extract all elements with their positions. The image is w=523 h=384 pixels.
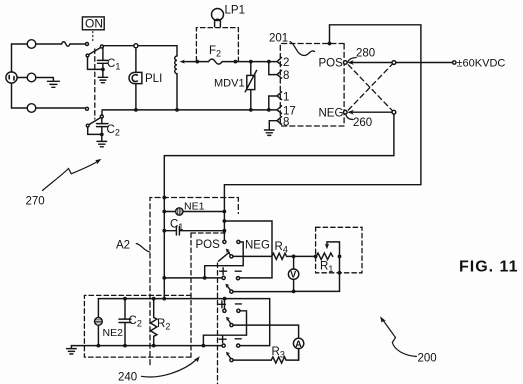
blade pole 3 [228, 320, 231, 324]
plus label pole4 [219, 336, 226, 343]
ground under C1 [98, 77, 107, 82]
switch S2 pole 3 minus contact [237, 309, 240, 312]
wire pole4 pivot to R3 [233, 359, 271, 361]
svg-text:8: 8 [283, 70, 289, 82]
capacitor C1 of A2 [164, 226, 224, 235]
dashed switch box left edge [190, 233, 192, 357]
wire pole2 pivot to V bottom [233, 291, 294, 293]
ground left of 240 [67, 346, 77, 354]
leader 270 [43, 162, 98, 191]
pin 1 [277, 92, 282, 100]
svg-text:260: 260 [353, 117, 372, 129]
POS arrowhead [347, 60, 354, 65]
transformer T1 winding [176, 46, 178, 110]
minus label pole3 [235, 303, 241, 305]
wire NEG return [164, 114, 394, 298]
wire left vertical [11, 44, 13, 108]
NEG arrowhead [347, 110, 354, 115]
switch S2 pole 1 POS contact [223, 240, 226, 243]
leader A2 [136, 244, 149, 252]
wire pole1 cross link [205, 266, 244, 278]
wire POS to 60KVDC [352, 62, 453, 64]
svg-text:200: 200 [418, 353, 437, 365]
dotted leader ON to switch [92, 32, 94, 44]
ground (mains) [47, 81, 59, 87]
wire NEG loop to minus contact [224, 221, 272, 278]
fuse F2 [209, 59, 223, 64]
voltmeter V [293, 258, 295, 269]
fuse bump top line [62, 42, 71, 47]
wire pin1 down [269, 96, 278, 109]
wire middle line [17, 78, 53, 81]
AC plug P1 [6, 72, 17, 83]
dashed box A2 [150, 198, 238, 365]
svg-text:NEG: NEG [245, 240, 270, 252]
blade pole 4 [228, 355, 231, 359]
leader 260 [346, 115, 353, 120]
svg-text:POS: POS [196, 239, 221, 251]
wiper arrow R1 [327, 242, 340, 255]
capacitor C1 [98, 48, 108, 77]
resistor R1 rheostat [316, 253, 333, 260]
leader 201 [290, 42, 315, 56]
wire R1 down to V line [294, 256, 340, 291]
wire pole3 pivot to ammeter [233, 325, 299, 338]
switch S2 pole 4 plus contact [222, 344, 225, 347]
terminal circle top [27, 40, 36, 49]
svg-text:270: 270 [26, 196, 45, 208]
switch S2 pole 2 plus contact [222, 276, 225, 279]
terminal circle middle [27, 73, 36, 82]
svg-text:2: 2 [283, 57, 289, 69]
pin 8 [277, 70, 282, 78]
wire F2 line [197, 61, 277, 63]
svg-text:POS: POS [319, 58, 344, 70]
svg-text:201: 201 [269, 33, 288, 45]
pin 17 [277, 106, 282, 114]
wire ground rail 240 [71, 345, 222, 347]
svg-text:FIG. 11: FIG. 11 [459, 259, 518, 276]
svg-text:MDV1: MDV1 [214, 78, 245, 90]
leader 280 [348, 58, 356, 62]
POS terminal circle [344, 61, 348, 65]
terminal circle 60KVDC [453, 61, 456, 64]
capacitor C2 [97, 118, 109, 141]
resistor R4 [272, 253, 287, 259]
dashed linkage S2 [217, 263, 219, 384]
dashed box 240 [84, 295, 191, 357]
wire pin8 to ground [269, 121, 277, 130]
NEG terminal circle [344, 110, 348, 114]
ammeter A [293, 338, 303, 348]
switch S2 pole 3 plus contact [223, 309, 226, 312]
svg-text:8: 8 [283, 117, 289, 129]
svg-text:280: 280 [356, 48, 375, 60]
wire blade return to C2 [88, 127, 102, 134]
lamp LP1 [212, 9, 224, 21]
switch S2 pole 4 minus contact [237, 344, 240, 347]
leader 240 [142, 360, 197, 377]
svg-text:1: 1 [283, 92, 289, 104]
capacitor C2 of 240 [119, 299, 131, 346]
neon lamp NE2 [97, 299, 99, 318]
dashed cross X [348, 65, 392, 111]
switch S1 ON label box [82, 17, 104, 30]
blade pole 1 [219, 250, 232, 261]
dashed box around LP1 fuse [196, 28, 238, 61]
resistor R2 [151, 299, 157, 346]
svg-text:PLI: PLI [145, 73, 162, 85]
wire top line [12, 43, 86, 45]
dashed box R1 [316, 227, 362, 272]
terminal circle bottom [27, 104, 36, 113]
svg-text:±60KVDC: ±60KVDC [457, 57, 506, 69]
pin 2 [277, 57, 282, 65]
minus label pole2 [235, 270, 241, 272]
pilot light PLI [135, 48, 137, 110]
wire NEG contact stub [240, 242, 243, 266]
wire top rail [103, 45, 177, 47]
svg-text:240: 240 [118, 372, 137, 384]
ground under pin 8 [265, 130, 275, 135]
wire lower rail [98, 299, 269, 346]
wire bottom rail [102, 109, 277, 111]
node circle on NEG wire [392, 110, 396, 114]
tap arrow wire [183, 61, 197, 63]
varistor MDV1 [250, 62, 252, 76]
contact circle S1a left [86, 43, 89, 46]
pin 8 lower [277, 117, 282, 125]
neon lamp NE1 [164, 211, 175, 213]
wire NEG to node [352, 111, 392, 113]
svg-text:A: A [295, 339, 302, 349]
wire bottom line [12, 107, 86, 109]
node circle PLI top [134, 44, 138, 48]
svg-text:NEG: NEG [319, 108, 344, 120]
minus label pole4 [235, 338, 241, 340]
switch S2 pole 1 NEG contact [237, 240, 240, 243]
svg-text:ON: ON [85, 17, 103, 31]
svg-text:NE1: NE1 [184, 201, 205, 213]
dashed switch box top [191, 232, 225, 234]
wire minus pole3 loop [203, 311, 246, 345]
svg-text:NE2: NE2 [103, 327, 124, 339]
ground under C2 [97, 141, 107, 146]
svg-text:A2: A2 [116, 240, 130, 252]
wire rail to plus contact [164, 277, 222, 279]
plus label pole2 [220, 268, 227, 275]
plus label pole3 [218, 301, 225, 308]
leader 200 [383, 320, 417, 357]
switch S2 pole 2 minus contact [236, 277, 239, 280]
mechanical link dashed [94, 49, 96, 119]
resistor R3 [271, 357, 286, 363]
wire top loop [224, 25, 421, 240]
wire blade return to C1 [88, 57, 103, 69]
blade pole 2 [228, 286, 231, 290]
node circle on POS wire [392, 61, 396, 65]
switch S1 pole B [100, 115, 103, 118]
wire pole1 to R4 [233, 255, 272, 257]
switch S1 pole A [100, 45, 103, 48]
dashed box 201 power supply [280, 44, 344, 127]
wire pin8 to pin2 [269, 63, 278, 75]
svg-text:V: V [290, 270, 296, 280]
svg-text:LP1: LP1 [225, 5, 245, 17]
contact circle S1b left [86, 107, 89, 110]
